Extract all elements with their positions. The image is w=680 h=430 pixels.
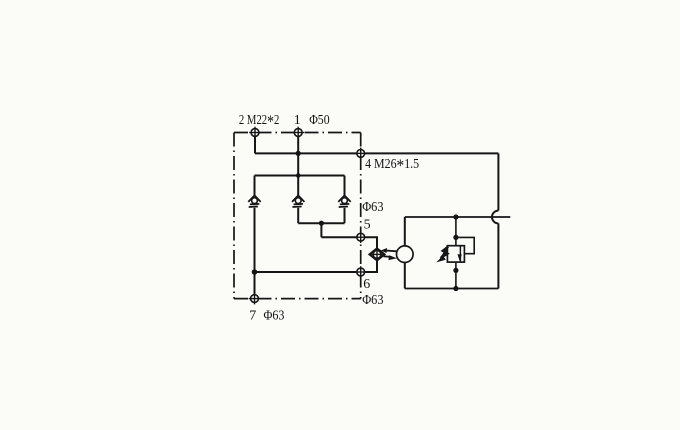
check valve CV2 xyxy=(292,195,304,207)
port 5 xyxy=(355,231,367,243)
junction relief lower xyxy=(453,268,458,273)
relief valve internal flow arrowhead xyxy=(458,254,462,261)
flow arrow lower (to pump) xyxy=(384,255,398,260)
junction port1/port2 lines xyxy=(296,151,301,156)
wire header drop to CV1 xyxy=(254,176,256,196)
relief valve body square RV1 xyxy=(447,246,464,262)
wire port2 vertical drop xyxy=(254,133,256,154)
power unit enclosure left edge lower xyxy=(404,262,406,288)
pump top stub xyxy=(404,246,406,250)
relief valve spring stem xyxy=(441,249,448,258)
junction relief bottom xyxy=(453,286,458,291)
svg-text:7: 7 xyxy=(249,308,256,323)
wire junction drop to port5 line xyxy=(320,223,322,237)
junction CV2-CV3 to port5 xyxy=(319,221,324,226)
relief valve spring arrowhead xyxy=(436,256,446,263)
svg-text:6: 6 xyxy=(363,277,370,292)
relief valve supply line upper xyxy=(455,217,457,246)
pump circle M xyxy=(397,246,414,263)
wire port6 line xyxy=(255,271,361,273)
svg-text:Φ63: Φ63 xyxy=(362,200,383,215)
relief valve internal passage line xyxy=(459,246,461,262)
manifold envelope left edge (dash-dot) xyxy=(233,133,235,299)
port 1 xyxy=(292,127,304,139)
wire to port5 xyxy=(321,236,360,238)
svg-text:Φ50: Φ50 xyxy=(309,113,329,128)
wire port1 vertical drop xyxy=(297,133,299,176)
port 7 xyxy=(249,293,261,305)
wire CV3 down xyxy=(344,208,346,223)
junction port1 header xyxy=(296,173,301,178)
wire right vertical down to power unit xyxy=(497,153,499,210)
wire header drop to CV3 xyxy=(344,176,346,196)
junction relief top xyxy=(453,214,458,219)
wire CV1 down to port7 xyxy=(254,208,256,299)
wire port6 to diamond xyxy=(361,259,377,272)
svg-text:5: 5 xyxy=(364,218,371,233)
manifold envelope top edge (dash-dot) xyxy=(234,132,361,134)
wire CV2 down xyxy=(297,208,299,223)
power unit enclosure top edge with stub xyxy=(405,216,511,218)
junction CV1 line port6 xyxy=(252,269,258,275)
svg-text:Φ63: Φ63 xyxy=(264,308,285,323)
pump bottom stub xyxy=(404,259,406,263)
line hop over top edge xyxy=(492,211,498,224)
svg-text:1: 1 xyxy=(294,113,301,128)
manifold envelope bottom edge (dash-dot) xyxy=(234,298,361,300)
svg-text:Φ63: Φ63 xyxy=(362,293,383,308)
check valve CV1 xyxy=(248,195,260,207)
wire header drop to CV2 xyxy=(297,176,299,196)
wire right vertical to bottom corner xyxy=(497,223,499,288)
orifice diamond with gauge port xyxy=(370,248,385,260)
wire main horizontal from port2 through port4 to right box xyxy=(255,152,498,154)
relief valve pilot line loop xyxy=(456,237,474,253)
relief valve spring (adjustable) xyxy=(441,247,448,258)
manifold envelope right edge (dash-dot) xyxy=(360,133,362,299)
port 6 xyxy=(355,266,367,278)
wire check-valve header xyxy=(255,175,345,177)
wire CV2-CV3 connector xyxy=(298,222,344,224)
junction relief pilot xyxy=(453,235,458,240)
port 4 xyxy=(355,148,367,160)
relief valve drain line lower xyxy=(455,262,457,288)
power unit enclosure left edge upper xyxy=(404,217,406,246)
check valve CV3 xyxy=(338,195,350,207)
power unit enclosure bottom edge xyxy=(405,288,499,290)
flow arrow upper (to diamond) xyxy=(381,248,397,253)
port 2 xyxy=(249,127,261,139)
wire port5 to diamond xyxy=(361,237,377,249)
